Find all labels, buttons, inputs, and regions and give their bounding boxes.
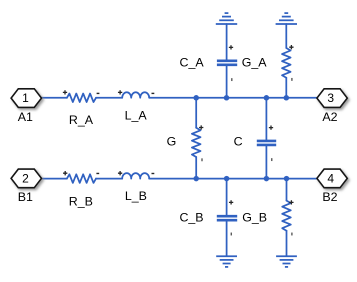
- L_A minus: [152, 93, 155, 94]
- C_A minus: [231, 78, 232, 81]
- wire top A1 to A2: [42, 97, 317, 99]
- port 2 hexagon: [11, 169, 41, 188]
- G minus: [201, 158, 202, 161]
- G plus: [199, 125, 203, 129]
- G_B plus: [289, 200, 293, 204]
- svg-text:C_B: C_B: [179, 211, 203, 225]
- svg-text:2: 2: [22, 172, 29, 186]
- wire bottom B1 to B2: [42, 178, 317, 180]
- R_A plus: [63, 90, 67, 94]
- node top-G: [193, 95, 199, 101]
- svg-text:4: 4: [327, 172, 334, 186]
- C_B plus: [229, 200, 233, 204]
- svg-text:G_B: G_B: [242, 211, 267, 225]
- resistor G_B (to bottom reference): [286, 179, 288, 201]
- node top-C: [264, 95, 270, 101]
- R_B plus: [63, 171, 67, 175]
- svg-text:A1: A1: [18, 110, 33, 124]
- svg-text:1: 1: [22, 91, 29, 105]
- resistor R_A: [67, 94, 96, 103]
- node bottom-G_B: [284, 176, 290, 182]
- svg-text:B1: B1: [18, 190, 33, 204]
- C plus: [269, 125, 273, 129]
- G_A minus: [291, 78, 292, 81]
- resistor G (shunt, vertical): [195, 98, 197, 128]
- svg-text:A2: A2: [322, 110, 337, 124]
- capacitor C_B (to bottom reference): [226, 179, 228, 256]
- svg-text:C_A: C_A: [180, 55, 205, 69]
- node bottom-C_B: [224, 176, 230, 182]
- node top-C_A: [224, 95, 230, 101]
- L_A plus: [118, 90, 122, 94]
- R_A minus: [97, 93, 100, 94]
- resistor R_B: [67, 174, 96, 183]
- ground (electrical reference, top left above C_A): [216, 13, 237, 24]
- G_A plus: [289, 45, 293, 49]
- L_B plus: [118, 171, 122, 175]
- ground (electrical reference, bottom right below G_B): [276, 256, 297, 267]
- svg-text:G: G: [167, 135, 177, 149]
- svg-text:3: 3: [327, 91, 334, 105]
- node bottom-C: [264, 176, 270, 182]
- L_B minus: [152, 173, 155, 174]
- inductor L_B: [122, 173, 149, 179]
- svg-text:C: C: [234, 135, 243, 149]
- capacitor C_A (to top reference): [226, 24, 228, 98]
- R_B minus: [96, 173, 99, 174]
- junction node dots: [193, 95, 289, 181]
- C minus: [271, 158, 272, 161]
- G_B minus: [291, 233, 292, 236]
- C_B minus: [231, 233, 232, 236]
- svg-text:R_A: R_A: [69, 113, 94, 127]
- ground (electrical reference, top right above G_A): [276, 13, 297, 24]
- node bottom-G: [193, 176, 199, 182]
- polarity marks: [63, 45, 294, 235]
- ground (electrical reference, bottom left below C_B): [216, 256, 237, 267]
- inductor L_A: [122, 92, 149, 98]
- port 4 hexagon: [317, 169, 347, 188]
- resistor G_A (to top reference): [285, 24, 287, 48]
- svg-text:L_A: L_A: [125, 108, 148, 122]
- svg-text:B2: B2: [322, 190, 337, 204]
- node top-G_A: [284, 95, 290, 101]
- port 3 hexagon: [317, 89, 347, 108]
- C_A plus: [229, 45, 233, 49]
- port 1 hexagon: [11, 89, 41, 108]
- svg-text:G_A: G_A: [242, 55, 268, 69]
- capacitor C (shunt, vertical): [265, 98, 267, 179]
- svg-text:L_B: L_B: [125, 189, 147, 203]
- svg-text:R_B: R_B: [69, 195, 93, 209]
